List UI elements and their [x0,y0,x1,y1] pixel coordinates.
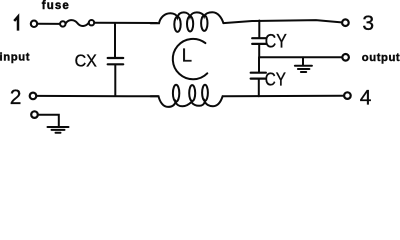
wire terminal1 to fuse [37,23,60,25]
junction CY top branch [258,21,260,38]
svg-text:2: 2 [10,86,22,109]
capacitor CX [108,58,124,96]
ground symbol right [295,57,312,72]
wire bottom rail left [36,95,158,97]
capacitor CY lower [251,73,266,97]
svg-text:input: input [0,51,30,63]
ground symbol bottom-left [48,127,69,133]
capacitor CY upper [252,38,266,58]
mid rail wire to earth terminal [259,56,342,58]
earth terminal circle [342,54,349,61]
inductor L core circle [173,39,208,79]
wire fuse to coil (top rail left) [94,22,157,24]
terminal 2 [30,93,37,100]
svg-text:fuse: fuse [42,0,70,12]
wire earth terminal to ground [38,115,59,127]
svg-text:4: 4 [360,86,372,109]
inductor L bottom winding [151,85,223,107]
svg-text:output: output [362,52,400,64]
terminal 4 [344,92,351,99]
wire coil to terminal 3 (top rail right) [223,20,341,23]
terminal 1 [31,21,37,27]
node 1 label [14,17,18,31]
earth terminal bottom-left [31,111,38,118]
wire bottom rail right [223,95,345,98]
junction between CY caps [258,57,260,72]
terminal 3 [342,19,349,26]
svg-text:CY: CY [265,32,287,53]
svg-text:CX: CX [75,50,97,70]
svg-text:CY: CY [265,69,287,90]
fuse F1 [60,20,94,27]
node junction CX top [114,24,116,57]
svg-text:L: L [182,45,192,66]
svg-text:3: 3 [362,12,374,35]
inductor L top winding [151,12,224,32]
